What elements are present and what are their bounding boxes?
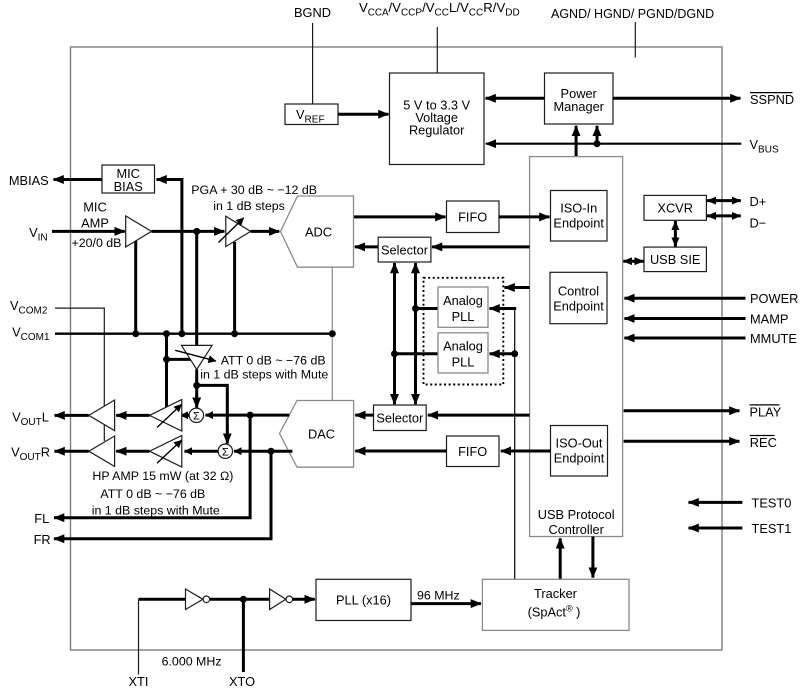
wire D- (707, 214, 741, 217)
box MIC BIAS (102, 165, 155, 194)
box FIFO top (447, 201, 500, 233)
junction MIC BIAS feed (178, 330, 185, 337)
svg-text:Analog: Analog (443, 339, 483, 354)
svg-text:Manager: Manager (553, 99, 604, 114)
svg-text:(SpAct® ): (SpAct® ) (528, 604, 581, 620)
svg-text:PLL (x16): PLL (x16) (336, 593, 391, 608)
junction (391, 350, 398, 357)
wire tracker feed to Analog PLL 2 (490, 352, 515, 355)
svg-text:USB SIE: USB SIE (650, 252, 701, 267)
wire Power Manager to regulator (486, 97, 545, 100)
svg-text:REC: REC (750, 435, 777, 450)
svg-text:Σ: Σ (193, 411, 200, 423)
HP amp L (89, 400, 115, 431)
svg-text:in 1 dB steps with Mute: in 1 dB steps with Mute (92, 504, 220, 518)
svg-text:BGND: BGND (294, 5, 331, 20)
chip outer border (71, 47, 723, 650)
svg-text:Tracker: Tracker (534, 586, 578, 601)
wire PLL clock vertical to tracker (514, 309, 516, 580)
svg-text:FL: FL (34, 511, 49, 526)
svg-text:BIAS: BIAS (114, 179, 143, 194)
attenuator ATT sidetone (182, 345, 213, 369)
wire att R to HP amp R (116, 450, 149, 453)
box USB Protocol Controller (530, 157, 623, 537)
box 5V to 3.3V Voltage Regulator (390, 73, 485, 165)
svg-text:USB Protocol: USB Protocol (538, 507, 615, 522)
svg-text:XCVR: XCVR (657, 201, 693, 216)
wire PGA to ADC (251, 230, 280, 233)
junction FR takeoff (268, 448, 275, 455)
svg-text:ATT 0 dB ~ −76 dB: ATT 0 dB ~ −76 dB (100, 487, 205, 501)
wire VBUS tap to Power Manager (596, 126, 599, 144)
amplifier PGA (226, 216, 251, 246)
svg-text:FR: FR (34, 532, 51, 547)
svg-text:HP AMP 15 mW (at 32 Ω): HP AMP 15 mW (at 32 Ω) (92, 469, 233, 483)
wire controller to tracker up (559, 538, 562, 579)
wire VCOM1 branch into ATT (167, 358, 193, 361)
svg-text:Selector: Selector (376, 411, 424, 426)
svg-text:Controller: Controller (548, 522, 604, 537)
junction FL takeoff (247, 412, 254, 419)
svg-text:FIFO: FIFO (458, 210, 487, 225)
wire mic amp feedback to VCOM1 (134, 240, 137, 334)
wire VCOM2 (55, 308, 104, 441)
DAC block (280, 401, 354, 468)
svg-text:Regulator: Regulator (409, 123, 465, 138)
wire controller to tracker down (591, 537, 594, 578)
svg-text:Endpoint: Endpoint (553, 216, 604, 231)
wire FIFO bottom to DAC (355, 450, 446, 453)
wire mic amp to PGA (152, 230, 225, 233)
wire MAMP (624, 317, 745, 320)
svg-text:Σ: Σ (222, 447, 229, 459)
wire vertical tap to Analog PLL 1 (416, 307, 439, 310)
svg-text:Control: Control (558, 284, 599, 299)
svg-text:ISO-In: ISO-In (560, 201, 597, 216)
svg-text:MAMP: MAMP (750, 312, 788, 327)
box Selector top (378, 237, 431, 262)
box PLL x16 (316, 579, 411, 620)
wire VIN to mic amp (52, 230, 125, 233)
summing node R (218, 444, 232, 459)
wire ATT out to sum L (195, 370, 198, 398)
wire VCOM1 rail (55, 333, 332, 335)
box VREF (285, 104, 338, 125)
wire Selector top / Selector bottom left vertical (393, 263, 396, 404)
wire VOUTR (55, 450, 89, 453)
wire ADC to FIFO top (354, 215, 446, 218)
inverter 1 (186, 589, 203, 610)
wire VCOM1 down to ATT mix (165, 334, 168, 412)
junction mic amp feedback (132, 330, 139, 337)
svg-text:AGND/ HGND/ PGND/DGND: AGND/ HGND/ PGND/DGND (551, 7, 714, 21)
wire XCVR to USB SIE (674, 221, 677, 247)
wire SSPND from Power Manager (613, 97, 741, 100)
svg-text:Analog: Analog (443, 293, 483, 308)
wire sum L to att L (181, 414, 190, 417)
box Control Endpoint (550, 272, 607, 323)
wire ATT out to sum R (197, 385, 228, 433)
svg-text:XTI: XTI (129, 674, 149, 689)
wire VOUTL (55, 414, 89, 417)
svg-text:PLL: PLL (452, 309, 475, 324)
wire FL (60, 415, 250, 518)
wire REC (624, 440, 740, 443)
svg-text:PGA + 30 dB ~ −12 dB: PGA + 30 dB ~ −12 dB (191, 183, 317, 197)
wire POWER (624, 297, 745, 300)
box FIFO bottom (447, 436, 500, 467)
wire inverter 2 to PLL (293, 598, 315, 601)
wire tracker feed to Analog PLL 1 (490, 307, 517, 310)
summing node L (189, 408, 203, 423)
svg-text:AMP: AMP (81, 216, 109, 231)
wire Selector top / Selector bottom right vertical (414, 263, 417, 404)
wire Selector bottom to DAC (355, 414, 373, 417)
dotted block analog PLL group (424, 278, 504, 385)
wire DAC R output to sum R (234, 450, 292, 453)
svg-text:POWER: POWER (750, 291, 798, 306)
wire controller to Selector top (432, 245, 530, 248)
svg-text:+20/0 dB: +20/0 dB (72, 236, 122, 250)
svg-text:D−: D− (750, 216, 767, 231)
wire MBIAS out (54, 178, 103, 181)
svg-text:TEST0: TEST0 (752, 495, 792, 510)
wire controller to Selector bottom (428, 414, 530, 417)
wire VCC to regulator (436, 27, 438, 73)
svg-text:D+: D+ (750, 194, 767, 209)
wire XTI to inverter 1 (139, 598, 186, 601)
wire Selector top to ADC (355, 245, 378, 248)
wire AGND stub (634, 22, 636, 58)
PGA variable arrow (219, 218, 244, 243)
svg-text:Endpoint: Endpoint (553, 299, 604, 314)
amplifier MIC AMP (126, 216, 152, 247)
box USB SIE (644, 247, 706, 272)
svg-text:MMUTE: MMUTE (750, 331, 797, 346)
wire vertical tap to Analog PLL 2 (395, 352, 439, 355)
junction signal tap (193, 228, 200, 235)
svg-text:SSPND: SSPND (750, 92, 794, 107)
wire controller to PLL dotted block (505, 286, 530, 289)
svg-text:DAC: DAC (308, 427, 335, 442)
junction ADC/DAC ref on VCOM1 (329, 330, 336, 337)
svg-text:ATT 0 dB ~ −76 dB: ATT 0 dB ~ −76 dB (221, 354, 326, 368)
svg-text:MIC: MIC (83, 200, 106, 215)
wire USB SIE to controller (623, 260, 643, 263)
box Selector bottom (374, 405, 427, 431)
wire inverter 1 to inverter 2 (210, 598, 270, 601)
svg-text:TEST1: TEST1 (752, 521, 792, 536)
wire signal tap down to ATT (195, 231, 198, 345)
wire TEST1 (689, 527, 743, 530)
svg-text:ISO-Out: ISO-Out (556, 436, 603, 451)
svg-text:in 1 dB steps: in 1 dB steps (213, 199, 285, 213)
svg-text:XTO: XTO (229, 674, 255, 689)
wire MMUTE (624, 337, 745, 340)
svg-text:Endpoint: Endpoint (554, 451, 605, 466)
junction (511, 350, 518, 357)
junction ATT split (193, 382, 200, 389)
ADC block (281, 196, 354, 267)
wire DAC L output to sum L (206, 414, 290, 417)
box XCVR (644, 195, 706, 220)
svg-text:in 1 dB steps with Mute: in 1 dB steps with Mute (200, 368, 328, 382)
box Tracker SpAct (482, 579, 629, 630)
svg-text:FIFO: FIFO (458, 444, 487, 459)
attenuator out R (150, 436, 182, 468)
junction (163, 356, 170, 363)
svg-text:MBIAS: MBIAS (9, 173, 49, 188)
wire PLL to tracker 96 MHz (411, 602, 481, 605)
wire BGND to VREF (312, 23, 314, 104)
wire VREF to regulator (339, 113, 389, 116)
svg-text:6.000 MHz: 6.000 MHz (162, 655, 222, 669)
attenuator out L (150, 400, 182, 432)
wire PGA feedback to VCOM1 (233, 242, 236, 334)
wire ADC reference to VCOM1 to DAC (331, 267, 333, 400)
ATT variable arrow (175, 350, 216, 361)
junction VBUS/PM (594, 140, 601, 147)
att L variable arrow (157, 404, 182, 427)
wire FR (60, 451, 271, 539)
box Power Manager (545, 73, 614, 124)
wire XTO down (242, 599, 245, 672)
svg-text:96 MHz: 96 MHz (417, 589, 460, 603)
junction ATT takeoff (163, 330, 170, 337)
box Analog PLL 1 (438, 287, 488, 327)
wire USB controller to Power Manager (575, 126, 578, 157)
wire FIFO top to ISO-In (499, 215, 550, 218)
svg-text:Selector: Selector (381, 243, 429, 258)
wire PLAY (624, 409, 740, 412)
svg-text:PLAY: PLAY (750, 405, 782, 420)
junction XTO (240, 596, 247, 603)
wire sum R to att R (185, 450, 219, 453)
wire att L to HP amp L (116, 414, 149, 417)
box ISO-Out Endpoint (551, 426, 608, 477)
HP amp R (89, 436, 115, 467)
svg-text:PLL: PLL (452, 355, 475, 370)
junction PGA feedback (231, 330, 238, 337)
box Analog PLL 2 (438, 333, 488, 373)
inverter 2 (270, 589, 286, 610)
box ISO-In Endpoint (551, 191, 608, 242)
wire vertical feed to MIC BIAS (158, 180, 182, 334)
wire VBUS (486, 143, 742, 145)
wire TEST0 (689, 501, 743, 504)
junction (412, 305, 419, 312)
wire ISO-Out to FIFO bottom (501, 450, 551, 453)
att R variable arrow (157, 440, 182, 463)
wire D+ (707, 199, 741, 202)
wire XTI input (138, 599, 140, 674)
svg-text:ADC: ADC (305, 225, 332, 240)
